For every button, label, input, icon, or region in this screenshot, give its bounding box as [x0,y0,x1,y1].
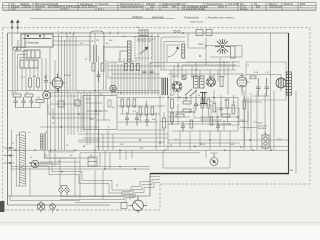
wire center cluster rungs [168,90,238,150]
switch coil dark [182,44,185,58]
svg-text:( Ansicht von unten ): ( Ansicht von unten ) [206,15,234,19]
main hf bus [8,91,160,93]
chassis frame bottom rail thick [150,173,289,175]
resistor R2 [37,78,40,87]
wafer contact circles [174,30,180,32]
wire big step run A [30,163,133,201]
switch arc [168,47,179,58]
AF coupling block rect [83,96,117,130]
svg-text:0,3M: 0,3M [183,98,188,100]
top mini box pair B1 [196,30,203,36]
svg-text:110-240 V: 110-240 V [258,128,268,130]
svg-text:Helligkeit: Helligkeit [132,15,143,19]
terminal tick T3 [4,162,15,164]
wire mid column extras [95,37,168,96]
capacitor C11 [219,102,223,116]
capacitor C1 [44,74,48,91]
resistor R27 [125,64,128,71]
magic eye target box [231,46,236,58]
resistor R3 [13,94,21,97]
svg-text:Netzansch.: Netzansch. [258,124,268,127]
capacitor C4 [30,97,34,108]
oscillator coil dark [128,41,132,62]
svg-text:Abgleichfrequenzen: Abgleichfrequenzen [120,5,143,9]
svg-text:110-240V: 110-240V [228,2,239,6]
resistor R8 [133,99,136,107]
tube socket U1 [172,82,182,92]
wire lower-left verticals [40,150,95,198]
junction dots bus row [14,150,75,173]
tube socket U2 [207,78,216,87]
output transformer core hatch [286,72,291,95]
switch cluster dashed [135,37,152,59]
wire antenna leads [12,28,18,34]
resistor R11 [151,107,154,115]
terminal tick T1 [4,147,15,149]
cluster internals [120,39,150,62]
svg-text:Ers. d.: Ers. d. [146,7,154,11]
wire mid column cluster a [78,33,158,150]
chassis frame top rail [8,32,289,34]
capacitor C12 [256,78,261,96]
svg-text:W: W [90,155,92,157]
wire af ladder rungs [118,98,165,131]
chassis frame left rail [7,33,9,205]
trimmer disc [182,75,186,79]
measuring note line [30,18,175,20]
sheet dashed border [3,28,310,210]
resistor R10 [145,107,148,115]
resistor R35 [163,118,166,128]
phones jack [210,154,218,166]
tube V2 socket blob [110,85,116,91]
tube V4 EL41 [237,73,247,91]
resistor R13 [220,77,223,87]
sub box L2b [20,60,38,68]
resistor R15 [171,113,174,122]
wire cluster drops [168,112,230,150]
svg-text:14.9.51: 14.9.51 [60,7,69,11]
title block text row 2 [11,5,302,9]
capacitor C14 [97,71,101,82]
capacitor C17 [181,122,185,132]
resistor R29 [137,64,140,71]
resistor R20 [213,103,216,112]
svg-text:1M: 1M [140,148,143,150]
output stage faint box [246,62,286,100]
junction dot eye loop [182,32,207,57]
svg-text:Gez: Gez [11,7,16,11]
svg-text:ECH41: ECH41 [64,75,72,77]
chassis frame right rail [288,33,290,174]
HF shield can rounded [90,31,128,62]
scan artifact left blob [0,201,5,212]
wire left lower horizontals [40,96,100,140]
svg-text:EL41: EL41 [240,75,246,77]
wire bottom buses [8,146,289,169]
wire extra verticals left-mid [59,33,77,135]
resistor R30 [176,114,184,117]
svg-text:EM34: EM34 [198,44,204,46]
svg-text:b.Tastensatz: b.Tastensatz [26,42,40,45]
title block text row 3 [11,7,248,11]
wire r1 r2 drops [30,87,38,91]
extra labels speckle [12,21,250,150]
resistor R9 [139,107,142,115]
wire center horizontals [150,58,240,95]
top mini box pair B2 [206,30,212,36]
wire column group left [22,47,50,91]
junction dots left lower [52,113,79,127]
capacitor C3 [22,97,26,108]
mains note text [258,123,268,131]
wire vertical bus cluster [48,40,72,150]
magic eye EM34 rays [215,39,230,54]
sub box L2a [24,50,40,58]
frame antenna lead [16,135,19,186]
junction box small2 [75,100,80,106]
wellenschalter caption [184,15,234,19]
capacitor C8 [135,112,139,126]
wire center lower horizontals [168,96,289,143]
title block text row 1 [11,2,305,6]
capacitor C18 [216,121,220,132]
svg-text:EN: EN [290,170,293,172]
resistor R32 [210,117,213,125]
box S1 caption [26,42,40,45]
resistor R31 [190,120,193,128]
svg-text:Fa Schaltbild Skala: Fa Schaltbild Skala [182,7,205,11]
detector box outline [194,105,211,118]
svg-text:Bei(s): Bei(s) [258,123,264,125]
capacitor C13 [265,78,270,96]
dial lamp LP1 [37,203,45,211]
resistor R18 [201,99,204,108]
antenna terminal A2 [17,20,20,28]
svg-text:Teilansicht: Teilansicht [184,15,199,19]
pilot lamp LP3 [129,196,148,213]
tube V1 ECH41 [50,74,65,93]
wire tube row feeds [168,63,240,82]
resistor R4 [25,94,33,97]
resistor R33 [222,114,230,117]
capacitor C9 [145,115,149,127]
af box outline 2 [217,108,239,125]
note text over line [132,15,165,19]
coupling coil L3 loops [40,133,45,150]
svg-text:1950/51: 1950/51 [22,5,32,9]
svg-text:Masze: Masze [240,7,248,11]
switch marks S3 [185,89,197,96]
capacitor C7 [125,112,129,126]
resistor R7 [127,99,130,107]
heater label [277,139,282,141]
svg-text:kHz: kHz [172,5,177,9]
svg-text:1620: 1620 [162,5,168,9]
resistor R34 [243,100,246,109]
wire box A to IF connectors [53,37,94,61]
wire output joins [242,75,281,97]
mains fuse P1 [262,132,269,150]
input coil L1 [12,34,21,52]
top small box [139,30,148,36]
capacitor C15 [143,71,147,73]
value labels sprinkle [13,27,293,212]
wire left lower runs [12,130,76,196]
resistor R5 [36,100,44,103]
terminal tick T2 [4,155,15,157]
capacitor C10 [194,99,198,111]
AF choke dark bars [200,92,207,104]
resistor R1 [29,78,32,87]
tone block box [88,157,97,166]
junction box small1 [58,101,64,107]
lamp pair small [59,185,69,196]
output transformer T3 [276,78,286,88]
svg-text:Superhet: Superhet [98,2,109,6]
frame antenna winding [20,132,26,186]
nested corner fan [13,48,27,91]
AF box internals [86,96,111,130]
svg-text:1M: 1M [96,40,99,42]
resistor R6 [121,99,124,107]
junction dots bottom [50,65,272,169]
resistor R14 [171,99,174,108]
wire extras right cluster [164,96,248,146]
resistor R17 [183,109,191,112]
left small comp label [240,120,245,122]
dial lamp LP2 [50,204,56,210]
wire bottom drops [95,150,132,169]
svg-text:gemessen: gemessen [152,16,165,19]
svg-text:Wellenschalter: Wellenschalter [190,21,204,24]
wire nested corners left of eye [161,33,242,70]
svg-text:EM: EM [256,5,260,9]
resistor R22 [232,105,235,114]
wire bottom row joins [12,91,40,108]
svg-text:ECH41 EAF41 EAF41 EL41 AZ41 EM: ECH41 EAF41 EAF41 EL41 AZ41 EM34 [48,5,95,9]
svg-text:Gepr: Gepr [35,7,41,11]
title block table [3,3,316,11]
wire right power verticals [244,33,296,174]
mains horizontal wire [240,122,257,127]
capacitor C2 [14,97,18,108]
svg-text:Serie: Serie [218,5,225,9]
wire cluster tops extended [139,33,148,62]
antenna terminal A1 [11,20,14,28]
coil bars L4 [162,78,167,95]
wire mid lower horizontals [78,95,168,150]
resistor R21 [226,99,229,108]
switch arrow S2 [140,47,148,54]
resistor R28 [131,64,134,71]
chassis frame bottom-left rails [8,174,150,205]
svg-text:EN 82113: EN 82113 [270,5,282,9]
resistor R16 [183,101,191,104]
svg-text:c: c [163,33,164,35]
resistor R25 [92,63,95,71]
svg-text:2M: 2M [44,77,47,79]
pickup jack J1 [31,160,39,168]
capacitor C16 [150,71,154,73]
wire staircase to rectifier [60,170,160,203]
scan artifact bottom line [0,222,320,224]
svg-text:Ers. f.: Ers. f. [98,7,105,11]
band switch box S1 [21,34,53,47]
coil box pair L7 [194,76,205,88]
phones loop wire [163,150,230,168]
lamp series box [121,203,127,209]
resistor R26 [101,63,104,71]
rail tick marks [62,32,118,35]
shield can circle [43,91,51,99]
resistor R19 [207,99,210,108]
svg-text:Batterie: Batterie [284,2,293,6]
junction dots cluster [83,97,250,151]
wire lamp leads [10,196,80,213]
wire long mid horizontal [160,111,248,122]
resistor R23 [250,76,256,79]
